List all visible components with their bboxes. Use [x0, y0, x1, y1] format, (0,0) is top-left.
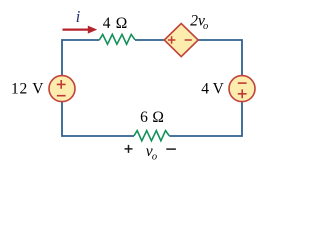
voltage source 4V circle: [229, 76, 255, 102]
svg-text:o: o: [152, 151, 157, 162]
wire top-right segment: [198, 40, 242, 76]
dependent source 2vo diamond: [164, 24, 198, 57]
dependent source plus sign: [168, 36, 176, 43]
svg-text:12 V: 12 V: [11, 80, 44, 97]
current arrow i: [63, 29, 90, 31]
wire top-middle segment: [135, 39, 164, 41]
vo polarity minus sign: [166, 148, 176, 150]
resistor 4 ohm zigzag: [99, 34, 135, 44]
12V source plus sign: [57, 80, 66, 89]
wire top-left segment: [62, 40, 99, 76]
4V source minus sign: [238, 82, 247, 84]
dependent source minus sign: [185, 39, 192, 41]
svg-text:o: o: [203, 21, 208, 32]
svg-text:i: i: [76, 7, 81, 26]
vo polarity plus sign: [125, 145, 133, 153]
svg-text:6 Ω: 6 Ω: [140, 109, 164, 126]
resistor 6 ohm zigzag: [134, 131, 169, 141]
wire left-bottom segment: [62, 102, 134, 136]
12V source minus sign: [57, 95, 66, 97]
4V source plus sign: [238, 89, 247, 98]
voltage source 12V circle: [49, 76, 75, 102]
svg-text:4 Ω: 4 Ω: [103, 15, 128, 32]
svg-text:4 V: 4 V: [201, 80, 224, 97]
wire bottom-right segment: [169, 102, 242, 136]
